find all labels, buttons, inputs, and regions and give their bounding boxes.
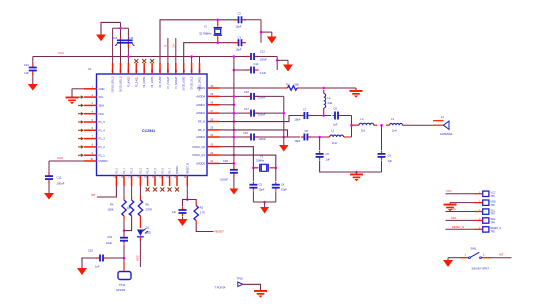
pin 17 P0_6 (bottom) xyxy=(160,167,164,186)
svg-text:RF_N: RF_N xyxy=(198,120,205,124)
wire AVDD4 row xyxy=(220,95,247,97)
svg-text:TP5: TP5 xyxy=(491,232,496,234)
wire XOSC_Q1 row xyxy=(220,155,276,168)
svg-text:P0_2: P0_2 xyxy=(132,167,134,173)
net vertical AVDD caps xyxy=(283,96,285,145)
pin 38 P2_4/XQ2 (top) xyxy=(128,63,130,87)
capacitor C7 18pF xyxy=(295,108,311,122)
crystal Y1 32MHz xyxy=(253,155,275,172)
pin 1 GND (left) xyxy=(84,86,105,91)
svg-text:C13: C13 xyxy=(254,62,259,66)
wire R2 to net RESET xyxy=(196,225,213,232)
svg-text:P2_2/DBG: P2_2/DBG xyxy=(144,76,146,87)
svg-text:DVDD2: DVDD2 xyxy=(99,159,109,163)
node junction AVDD bus xyxy=(233,103,236,106)
svg-text:AVDD2: AVDD2 xyxy=(196,111,205,115)
wire mid to L2 xyxy=(352,124,356,126)
port arrow pin 4 xyxy=(78,112,84,116)
svg-text:INT: INT xyxy=(91,193,96,197)
ground below C18 xyxy=(229,188,238,195)
ground below C21 xyxy=(28,84,38,91)
svg-text:C14: C14 xyxy=(129,36,134,40)
pin 19 DVDD1 (bottom) xyxy=(175,165,179,186)
svg-text:P2_0/USB: P2_0/USB xyxy=(160,76,162,87)
svg-text:GPIO#1: GPIO#1 xyxy=(116,288,126,292)
svg-text:TP12: TP12 xyxy=(119,283,126,287)
inductor L2 5n1 xyxy=(356,117,378,133)
node junction balun bottom xyxy=(318,136,321,139)
inductor L3 2nH xyxy=(386,117,406,133)
port arrow pin 9 xyxy=(78,153,84,157)
capacitor C19 10uF xyxy=(106,235,128,245)
svg-text:U1: U1 xyxy=(88,67,92,71)
pin 13 P0_2 (bottom) xyxy=(130,167,134,186)
svg-text:2.7K: 2.7K xyxy=(200,211,206,215)
pin 29 AVDD_DREG (top) xyxy=(199,63,202,91)
node junction bus/C15 xyxy=(233,136,236,139)
wire C6 to right edge xyxy=(341,116,352,138)
svg-text:AVDD1: AVDD1 xyxy=(196,103,205,107)
wire XOSC_Q2 row xyxy=(220,147,254,168)
wire crystal cap ground run xyxy=(253,191,275,202)
svg-text:C18: C18 xyxy=(223,159,229,163)
wire pin1 GND to ground xyxy=(72,89,84,96)
svg-text:DVDD1: DVDD1 xyxy=(177,165,179,174)
svg-text:0R: 0R xyxy=(129,212,132,216)
svg-text:Y2: Y2 xyxy=(204,25,208,29)
svg-text:VCC: VCC xyxy=(446,189,452,193)
resistor R5 0R xyxy=(127,196,134,220)
wire to TP12 xyxy=(123,262,125,271)
ground below C11 xyxy=(44,192,54,200)
svg-text:VCC: VCC xyxy=(136,255,140,261)
capacitor C9 1pF xyxy=(378,151,393,163)
net label VCC xyxy=(58,51,65,55)
svg-text:L3: L3 xyxy=(391,117,394,121)
resistor R4 100K xyxy=(107,196,126,220)
ground (bars) under run xyxy=(350,172,363,181)
svg-text:P1_7/UART: P1_7/UART xyxy=(167,76,170,89)
resistor R2 2.7K xyxy=(194,202,205,225)
svg-text:SW1: SW1 xyxy=(471,246,478,250)
ground Y1 (arrow) xyxy=(260,202,269,214)
wire RBIAS row xyxy=(220,87,284,89)
svg-text:TP2: TP2 xyxy=(491,205,496,207)
wire gnd tap C12 xyxy=(277,60,288,64)
pin 35 P2_1/DBG (top) xyxy=(152,63,154,88)
port arrow pin 5 xyxy=(78,120,84,124)
capacitor C6 1pF xyxy=(333,107,341,127)
svg-text:C12: C12 xyxy=(260,50,265,54)
svg-text:DGND_USB_D: DGND_USB_D xyxy=(113,76,115,92)
svg-text:E1: E1 xyxy=(441,115,445,119)
capacitor C18 100nF xyxy=(220,159,238,182)
wire C21 to ground xyxy=(32,74,34,84)
ground (bars) TP2 xyxy=(444,203,457,212)
wire Y1 left to C3 xyxy=(252,168,254,181)
pin 23 XOSC_Q2 (right) xyxy=(192,143,219,148)
wire C9 to ground run xyxy=(381,161,383,173)
svg-text:P0_7: P0_7 xyxy=(170,167,172,173)
wire AVDD2 row xyxy=(220,112,247,114)
svg-text:P1_4: P1_4 xyxy=(99,128,106,132)
svg-text:100nF: 100nF xyxy=(57,182,65,186)
ground SW1 (arrow) xyxy=(443,260,453,267)
svg-text:GND: GND xyxy=(491,201,496,203)
pin 16 P0_5 (bottom) xyxy=(153,167,157,186)
svg-text:P1_5: P1_5 xyxy=(99,120,106,124)
svg-text:Y1: Y1 xyxy=(260,155,264,159)
pin 2 SCL (left) xyxy=(84,94,104,99)
node junction bus/C16 xyxy=(233,95,236,98)
wire net D- xyxy=(163,38,168,63)
svg-text:1pF: 1pF xyxy=(388,159,393,163)
wire TP4 SDA xyxy=(446,216,475,221)
svg-text:1uF: 1uF xyxy=(326,158,331,162)
svg-text:SDA: SDA xyxy=(99,104,105,108)
wire C15 right xyxy=(257,136,301,138)
antenna E1 xyxy=(433,115,453,136)
node junction vert/balun row xyxy=(283,136,286,139)
no-connect X (bottom pin) xyxy=(168,188,172,192)
svg-text:C3: C3 xyxy=(259,183,263,187)
IC U1 CC2541 body xyxy=(88,67,207,176)
svg-text:AVDD3: AVDD3 xyxy=(196,135,205,139)
svg-text:P2_4/XQ2: P2_4/XQ2 xyxy=(128,76,130,87)
net AVDD bus xyxy=(233,57,235,168)
node junction C25 tap xyxy=(123,257,126,260)
wire Y2 top branch xyxy=(160,20,236,63)
svg-text:L2: L2 xyxy=(361,117,364,121)
no-connect X (bottom pin) xyxy=(160,188,164,192)
node junction AVDD bus xyxy=(233,162,236,165)
wire pin12 down xyxy=(123,186,125,196)
node junction AVDD bus xyxy=(233,136,236,139)
svg-text:TP3: TP3 xyxy=(491,214,496,216)
wire reset to R2 xyxy=(187,200,196,202)
svg-text:SDA: SDA xyxy=(491,218,496,221)
svg-text:SCL: SCL xyxy=(491,210,496,212)
pin 18 P0_7 (bottom) xyxy=(168,167,172,186)
ground Y2 (arrow) xyxy=(267,37,277,44)
svg-text:15pF: 15pF xyxy=(281,188,287,192)
node junction AVDD bus xyxy=(233,129,236,132)
node junction VCC/top pin xyxy=(127,55,130,58)
node junction C13 bus xyxy=(233,69,236,72)
svg-text:2.2uF: 2.2uF xyxy=(260,71,267,75)
crystal Y2 32.768kHz xyxy=(199,20,222,43)
wire Y2 gnd tap xyxy=(261,32,272,36)
svg-text:TP1: TP1 xyxy=(491,196,496,198)
svg-text:T PONTA: T PONTA xyxy=(215,286,226,290)
svg-text:R4: R4 xyxy=(110,203,114,207)
node junction bus VCC xyxy=(233,55,236,58)
svg-text:SCL: SCL xyxy=(451,207,457,211)
svg-text:C21: C21 xyxy=(24,63,30,67)
svg-text:32.768kHz: 32.768kHz xyxy=(199,32,212,36)
wire C19 to node2 xyxy=(123,244,125,262)
svg-text:1: 1 xyxy=(465,254,467,257)
svg-text:DVDD_IO_2: DVDD_IO_2 xyxy=(192,76,194,90)
pin 9 P1_1 (left) xyxy=(84,152,105,157)
pin 30 DVDD_IO_2 (top) xyxy=(192,63,194,89)
net label VCC (left) xyxy=(57,156,64,160)
svg-text:DVDD_USB_D: DVDD_USB_D xyxy=(121,76,123,92)
svg-text:C6: C6 xyxy=(334,107,338,111)
svg-text:2uH: 2uH xyxy=(328,101,333,105)
svg-text:P0_3: P0_3 xyxy=(141,167,143,173)
svg-text:1uF: 1uF xyxy=(24,71,29,75)
node junction balun top xyxy=(322,114,325,117)
capacitor C17 100nF xyxy=(244,107,266,117)
svg-text:C2: C2 xyxy=(238,12,242,16)
svg-text:C1: C1 xyxy=(238,36,242,40)
svg-text:D+: D+ xyxy=(171,44,175,48)
no-connect X (bottom pin) xyxy=(175,188,179,192)
ground below C20 xyxy=(178,219,188,226)
svg-text:100nF: 100nF xyxy=(220,178,228,182)
test pad TP3 SCL xyxy=(474,209,496,216)
pin 6 P1_4 (left) xyxy=(84,127,105,132)
svg-text:18pF: 18pF xyxy=(295,139,301,143)
net label RESET xyxy=(215,230,225,234)
node junction AVDD bus xyxy=(233,154,236,157)
no-connect X (bottom pin) xyxy=(153,188,157,192)
pin 32 P1_6/UART (top) xyxy=(175,63,178,89)
svg-text:RESET_N: RESET_N xyxy=(187,163,189,174)
svg-text:RF_P: RF_P xyxy=(198,128,205,132)
svg-text:LED: LED xyxy=(146,231,151,235)
svg-text:15pF: 15pF xyxy=(259,188,265,192)
wire ground branch (top left) xyxy=(101,22,121,34)
svg-text:15pF: 15pF xyxy=(236,48,242,52)
node junction VCC/DVDD xyxy=(190,55,193,58)
resistor R6 270R xyxy=(138,196,152,220)
svg-text:C17: C17 xyxy=(244,107,249,111)
test pad TP1 VCC xyxy=(474,191,496,198)
wire reset to C20 xyxy=(183,200,188,207)
port arrow pin 7 xyxy=(78,137,84,141)
LED D1 xyxy=(137,220,151,241)
node junction AVDD bus xyxy=(233,112,236,115)
svg-text:2nH: 2nH xyxy=(332,141,337,145)
pin 39 DVDD_USB_D (top) xyxy=(121,63,123,92)
pin 26 RF_N (right) xyxy=(198,118,220,123)
capacitor C13 2.2uF xyxy=(247,62,267,75)
wire TP2 GND xyxy=(450,202,474,204)
svg-text:P1_3: P1_3 xyxy=(99,137,106,141)
svg-text:SCL: SCL xyxy=(99,95,105,99)
wire RF_P to balun xyxy=(220,130,288,137)
node junction Y1 left xyxy=(252,167,255,170)
node junction Y1 right xyxy=(275,167,278,170)
svg-text:C4: C4 xyxy=(281,183,285,187)
svg-text:P0_0: P0_0 xyxy=(117,167,119,173)
test pad TP4 SDA xyxy=(474,218,496,225)
pin 40 DGND_USB_D (top) xyxy=(113,63,115,92)
node junction balun mid xyxy=(350,124,353,127)
pin 34 P2_0/USB (top) xyxy=(160,63,162,87)
capacitor C8 18pF xyxy=(295,129,311,143)
wire LED down / net VCC xyxy=(136,240,141,267)
svg-text:RESET_N: RESET_N xyxy=(491,228,502,230)
svg-text:P0_5: P0_5 xyxy=(155,167,157,173)
pin 11 P0_0 (bottom) xyxy=(114,167,118,186)
pin 28 AVDD1 (right) xyxy=(196,102,219,107)
wire L3 to antenna xyxy=(406,124,444,126)
svg-text:D-: D- xyxy=(163,44,167,47)
pin 12 P0_1 (bottom) xyxy=(122,167,126,186)
ground (bars) right of R1 xyxy=(350,88,363,98)
node junction Y2 gnd tap xyxy=(260,31,263,34)
pin 10 DVDD2 (left) xyxy=(84,158,108,163)
switch SW1 SW KEY-SPST xyxy=(460,246,493,270)
wire DVDD2 to VCC xyxy=(49,161,84,172)
svg-text:15pF: 15pF xyxy=(236,25,242,29)
svg-text:P1_2: P1_2 xyxy=(99,145,106,149)
node junction Y2 top xyxy=(216,19,219,22)
node junction C16/C17 xyxy=(283,112,286,115)
capacitor C5 1uF xyxy=(316,151,331,162)
svg-text:1nF: 1nF xyxy=(95,265,100,269)
capacitor C12 100nF xyxy=(247,50,268,62)
svg-text:ANTENNA: ANTENNA xyxy=(440,132,453,136)
pin 33 P1_7/UART (top) xyxy=(167,63,170,89)
svg-text:L1: L1 xyxy=(331,129,334,133)
wire L2/L3 node down xyxy=(381,125,383,150)
svg-text:INT: INT xyxy=(499,252,504,256)
pin 25 RF_P (right) xyxy=(198,127,219,132)
svg-text:P2_1/DBG: P2_1/DBG xyxy=(152,76,154,87)
svg-text:C15: C15 xyxy=(243,131,248,135)
svg-text:R5: R5 xyxy=(127,206,131,210)
pin 27 AVDD2 (right) xyxy=(196,110,219,115)
svg-text:C7: C7 xyxy=(303,108,307,112)
wire RF_N to balun xyxy=(220,116,302,122)
svg-text:C9: C9 xyxy=(388,154,392,158)
node junction crystal gnd xyxy=(263,201,266,204)
capacitor C20 1uF xyxy=(172,207,187,216)
svg-text:TP4: TP4 xyxy=(491,223,496,225)
svg-text:NC2: NC2 xyxy=(99,112,105,116)
svg-text:P0_6: P0_6 xyxy=(163,167,165,173)
svg-text:10uF: 10uF xyxy=(106,241,112,245)
wire VCC to C21 xyxy=(32,57,34,64)
wire TP5 RESET_N xyxy=(446,225,475,230)
svg-text:VCC: VCC xyxy=(57,156,64,160)
no-connect X (top pin) xyxy=(150,59,154,63)
svg-text:VCC: VCC xyxy=(58,51,65,55)
wire C12 right edge xyxy=(257,57,278,71)
no-connect X (top pin) xyxy=(134,59,138,63)
capacitor C16 100nF xyxy=(244,90,266,100)
wire C8 to L1 xyxy=(310,136,326,138)
test pad TP5 RESET_N xyxy=(474,227,501,234)
svg-text:P1_1: P1_1 xyxy=(99,153,106,157)
node junction reset xyxy=(186,198,189,201)
capacitor C21 1uF xyxy=(24,63,37,75)
svg-text:5n1: 5n1 xyxy=(361,129,366,133)
capacitor C3 15pF xyxy=(249,182,264,192)
wire Y1 right to C4 xyxy=(275,168,277,181)
svg-text:P2_3/XQ1: P2_3/XQ1 xyxy=(136,76,138,87)
node junction AVDD bus xyxy=(233,120,236,123)
svg-text:SW KEY-SPST: SW KEY-SPST xyxy=(472,267,490,271)
port arrow pin 8 xyxy=(78,145,84,149)
wire TP3 SCL xyxy=(446,207,475,212)
svg-text:GND: GND xyxy=(99,87,105,91)
wire C11 to ground xyxy=(48,183,50,193)
wire SW1 left to ground xyxy=(448,258,460,260)
wire C17 to vert bus xyxy=(257,112,284,114)
pin 29 AVDD4 (right) xyxy=(196,93,219,98)
svg-text:D1: D1 xyxy=(146,226,150,230)
pin 36 P2_2/DBG (top) xyxy=(144,63,146,88)
wire C7 to C6 xyxy=(310,115,331,117)
svg-text:C25: C25 xyxy=(88,249,93,253)
svg-text:100nF: 100nF xyxy=(260,58,268,62)
pin 21 AVDD5 (right) xyxy=(196,160,219,165)
inductor L1 2nH xyxy=(326,129,347,146)
ground (bars) TP16 xyxy=(254,290,267,298)
pin 7 P1_3 (left) xyxy=(84,135,105,140)
pin 31 DVDD_USB2 (top) xyxy=(184,63,186,90)
svg-text:270R: 270R xyxy=(146,208,152,212)
svg-text:RESET_N: RESET_N xyxy=(452,225,464,229)
wire L1 to right edge xyxy=(347,136,351,138)
svg-text:C11: C11 xyxy=(57,176,62,180)
svg-text:AVDD4: AVDD4 xyxy=(196,94,205,98)
test pad TP2 GND xyxy=(474,200,496,207)
wire AVDD1 to bus xyxy=(220,104,234,106)
svg-text:XOSC_Q2: XOSC_Q2 xyxy=(192,145,205,149)
capacitor C15 100nF xyxy=(243,131,266,141)
pin 3 SDA (left) xyxy=(84,102,104,107)
wire net D+ xyxy=(171,38,176,63)
svg-text:RBIAS: RBIAS xyxy=(197,86,205,90)
test point TP16 xyxy=(215,277,244,290)
svg-text:C16: C16 xyxy=(244,90,249,94)
pin 37 P2_3/XQ1 (top) xyxy=(136,63,138,87)
wire node2 to C25 xyxy=(107,257,124,259)
svg-text:R6: R6 xyxy=(146,203,150,207)
svg-text:C19: C19 xyxy=(107,235,112,239)
wire pin14 down xyxy=(139,186,141,196)
pin 30 RBIAS (right) xyxy=(197,85,220,90)
capacitor C11 100nF xyxy=(45,172,65,186)
no-connect X (top pin) xyxy=(142,59,146,63)
wire C16 to vert xyxy=(257,95,284,97)
pin 5 P1_5 (left) xyxy=(84,119,105,124)
svg-text:XOSC_Q1: XOSC_Q1 xyxy=(192,153,205,157)
node junction R4/C19 xyxy=(123,229,126,232)
capacitor C1 15pF xyxy=(234,36,246,52)
node junction Y2 bottom xyxy=(216,41,219,44)
capacitor C25 1nF xyxy=(88,249,107,269)
wire L4 to balun xyxy=(323,112,325,116)
port arrow pin 2 xyxy=(78,95,84,99)
svg-text:CC2541: CC2541 xyxy=(142,129,155,133)
svg-text:R1: R1 xyxy=(287,83,291,87)
node junction R1/L4 xyxy=(322,87,325,90)
svg-text:R2: R2 xyxy=(200,206,204,210)
crystal X1 32MHz with C10/C14 xyxy=(112,36,134,48)
wire AVDD5 to bus xyxy=(220,162,234,164)
svg-text:RESET: RESET xyxy=(215,230,225,234)
svg-text:DVDD_USB2: DVDD_USB2 xyxy=(184,76,186,91)
pin 20 RESET_N (bottom) xyxy=(185,163,189,186)
no-connect X (bottom pin) xyxy=(146,188,150,192)
